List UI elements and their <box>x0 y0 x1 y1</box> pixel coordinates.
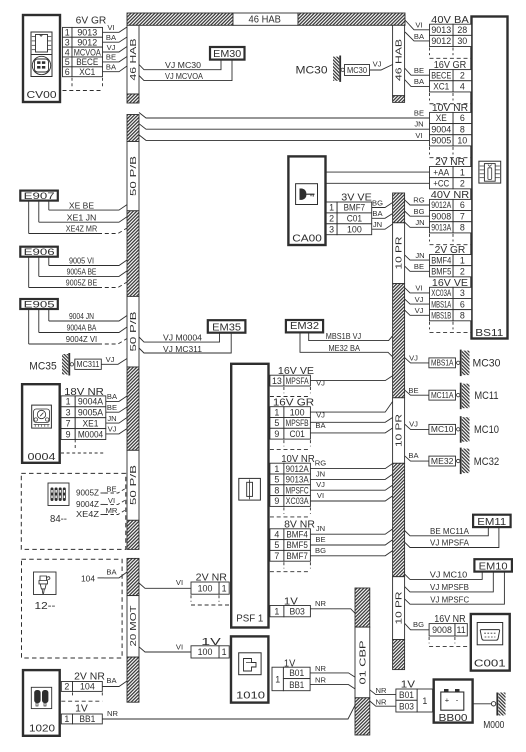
svg-text:EM30: EM30 <box>213 49 241 60</box>
svg-text:10 PR: 10 PR <box>394 591 404 624</box>
svg-text:11: 11 <box>456 625 465 635</box>
svg-text:MC10: MC10 <box>474 424 499 436</box>
svg-text:NR: NR <box>107 709 118 718</box>
svg-text:VI: VI <box>176 643 183 652</box>
svg-text:5: 5 <box>274 418 279 428</box>
svg-text:BMF7: BMF7 <box>286 551 308 561</box>
svg-text:8: 8 <box>460 124 465 134</box>
svg-text:VJ: VJ <box>415 306 424 315</box>
svg-text:84--: 84-- <box>50 514 67 525</box>
svg-text:100: 100 <box>198 647 213 657</box>
svg-text:VJ MC30: VJ MC30 <box>165 60 201 70</box>
svg-text:BECE: BECE <box>76 57 98 67</box>
svg-text:VJ: VJ <box>106 355 115 364</box>
svg-text:EM32: EM32 <box>290 321 319 332</box>
svg-text:BE: BE <box>315 535 325 544</box>
svg-text:9: 9 <box>274 496 279 506</box>
svg-text:MCVOA: MCVOA <box>74 47 101 57</box>
svg-text:40V NR: 40V NR <box>431 190 469 201</box>
svg-text:VJ: VJ <box>316 480 325 489</box>
svg-text:BMF4: BMF4 <box>286 529 308 539</box>
svg-text:BG: BG <box>414 207 425 216</box>
svg-text:VJ: VJ <box>415 295 424 304</box>
svg-text:16V GR: 16V GR <box>434 60 467 71</box>
svg-text:B03: B03 <box>399 702 414 712</box>
svg-text:100: 100 <box>198 583 213 593</box>
svg-text:VI: VI <box>415 21 422 30</box>
svg-text:7: 7 <box>460 211 465 221</box>
svg-text:ME32: ME32 <box>431 457 454 466</box>
svg-text:6: 6 <box>65 67 70 77</box>
svg-text:VI: VI <box>415 284 422 293</box>
svg-text:C001: C001 <box>474 658 506 670</box>
svg-text:RG: RG <box>315 459 326 468</box>
svg-text:BA: BA <box>106 676 117 685</box>
svg-text:2: 2 <box>64 682 69 692</box>
svg-text:XE4Z: XE4Z <box>76 509 99 519</box>
svg-text:VI: VI <box>107 23 114 32</box>
svg-text:BA: BA <box>315 421 326 430</box>
svg-text:9005 VI: 9005 VI <box>69 256 94 266</box>
svg-text:VJ: VJ <box>316 410 325 419</box>
svg-text:9005A: 9005A <box>78 407 103 417</box>
svg-text:JN: JN <box>316 469 325 478</box>
svg-text:EM11: EM11 <box>477 517 506 528</box>
svg-text:9012: 9012 <box>77 37 97 47</box>
svg-text:104: 104 <box>81 573 95 583</box>
svg-text:M000: M000 <box>483 720 505 731</box>
svg-text:MC11A: MC11A <box>431 391 454 400</box>
svg-text:BA: BA <box>414 77 425 86</box>
svg-text:VI: VI <box>415 131 422 140</box>
svg-text:BMF5: BMF5 <box>431 266 451 276</box>
svg-text:9004 JN: 9004 JN <box>69 311 94 321</box>
svg-text:8V NR: 8V NR <box>284 520 315 531</box>
svg-text:+CC: +CC <box>433 178 450 188</box>
svg-text:VJ MPSFC: VJ MPSFC <box>430 594 469 604</box>
svg-text:6V GR: 6V GR <box>76 15 107 26</box>
svg-text:VI: VI <box>317 491 324 500</box>
svg-text:BMF4: BMF4 <box>431 255 451 265</box>
svg-text:MC32: MC32 <box>474 456 500 468</box>
svg-text:BMF5: BMF5 <box>286 540 308 550</box>
svg-text:9005Z: 9005Z <box>76 487 99 497</box>
svg-text:0004: 0004 <box>28 451 56 463</box>
svg-text:BMF7: BMF7 <box>344 203 366 213</box>
svg-text:E907: E907 <box>24 191 55 202</box>
svg-text:2: 2 <box>460 70 465 80</box>
svg-text:XC1: XC1 <box>79 67 95 77</box>
svg-text:16V NR: 16V NR <box>434 614 465 625</box>
svg-text:100: 100 <box>290 407 305 417</box>
svg-text:10V NR: 10V NR <box>281 454 315 465</box>
svg-text:VJ M0004: VJ M0004 <box>163 333 202 343</box>
svg-text:BA: BA <box>372 209 383 218</box>
svg-text:EM10: EM10 <box>479 561 508 572</box>
svg-text:XE BE: XE BE <box>69 200 95 210</box>
svg-text:2V NR: 2V NR <box>435 157 465 168</box>
svg-text:16V VE: 16V VE <box>278 366 314 377</box>
svg-text:100: 100 <box>347 224 362 234</box>
svg-text:VI: VI <box>176 578 183 587</box>
svg-text:40V BA: 40V BA <box>431 15 469 26</box>
svg-text:BE: BE <box>408 386 418 395</box>
svg-text:C01: C01 <box>347 214 362 224</box>
svg-text:VJ: VJ <box>316 379 325 388</box>
svg-text:VJ MPSFA: VJ MPSFA <box>430 538 469 548</box>
svg-text:BB00: BB00 <box>439 712 468 724</box>
svg-text:BA: BA <box>106 33 117 42</box>
svg-text:ME32 BA: ME32 BA <box>328 343 360 353</box>
svg-text:10: 10 <box>457 136 467 146</box>
svg-text:BB1: BB1 <box>289 680 304 690</box>
svg-text:NR: NR <box>315 664 326 673</box>
svg-text:CA00: CA00 <box>292 233 322 245</box>
svg-text:BB1: BB1 <box>79 714 95 724</box>
svg-text:104: 104 <box>80 682 95 692</box>
svg-text:BE: BE <box>107 403 117 412</box>
svg-text:MPSFC: MPSFC <box>286 485 309 495</box>
svg-text:8: 8 <box>460 310 465 320</box>
svg-text:2V GR: 2V GR <box>435 245 466 256</box>
svg-text:BA: BA <box>408 451 419 460</box>
svg-text:1: 1 <box>66 397 71 407</box>
svg-text:E906: E906 <box>24 247 55 258</box>
svg-text:XE4Z MR: XE4Z MR <box>66 224 97 234</box>
svg-text:9013: 9013 <box>431 25 451 35</box>
svg-text:NR: NR <box>315 675 326 684</box>
svg-text:2V NR: 2V NR <box>196 573 227 584</box>
svg-text:01 CBP: 01 CBP <box>357 640 367 685</box>
svg-text:5: 5 <box>65 57 70 67</box>
svg-text:MBS1B: MBS1B <box>431 310 451 320</box>
svg-text:9012: 9012 <box>431 36 451 46</box>
svg-text:2: 2 <box>329 214 334 224</box>
svg-text:5: 5 <box>274 540 279 550</box>
svg-text:46 HAB: 46 HAB <box>249 15 282 26</box>
svg-text:BA: BA <box>106 63 117 72</box>
svg-text:3: 3 <box>66 407 71 417</box>
svg-text:XC03A: XC03A <box>286 496 309 506</box>
svg-text:BG: BG <box>372 198 383 207</box>
svg-text:20 MOT: 20 MOT <box>128 606 138 647</box>
svg-text:9005Z BE: 9005Z BE <box>66 278 98 288</box>
svg-text:VJ MPSFB: VJ MPSFB <box>430 582 469 592</box>
svg-text:+AA: +AA <box>433 167 449 177</box>
svg-text:9013A: 9013A <box>431 223 451 233</box>
svg-text:+: + <box>445 695 450 704</box>
svg-text:4: 4 <box>460 82 465 92</box>
svg-text:1010: 1010 <box>236 690 265 702</box>
svg-text:VJ MCVOA: VJ MCVOA <box>165 71 203 81</box>
svg-text:50 P/B: 50 P/B <box>128 464 138 505</box>
svg-text:8: 8 <box>460 223 465 233</box>
svg-text:1: 1 <box>274 606 279 616</box>
svg-text:7: 7 <box>274 551 279 561</box>
svg-text:9008: 9008 <box>431 211 451 221</box>
svg-text:1: 1 <box>64 714 69 724</box>
svg-text:MC311: MC311 <box>77 360 100 369</box>
svg-text:1: 1 <box>65 28 70 38</box>
svg-text:1V: 1V <box>284 596 298 607</box>
svg-text:B01: B01 <box>289 668 304 678</box>
svg-text:MC35: MC35 <box>29 360 56 372</box>
svg-text:MC30: MC30 <box>473 358 501 370</box>
svg-text:VJ: VJ <box>373 60 382 69</box>
svg-text:7: 7 <box>66 418 71 428</box>
svg-text:1V: 1V <box>401 680 416 691</box>
svg-text:JN: JN <box>373 220 382 229</box>
svg-text:C01: C01 <box>289 429 304 439</box>
svg-text:1: 1 <box>460 167 465 177</box>
svg-text:46 HAB: 46 HAB <box>394 38 404 81</box>
svg-text:JN: JN <box>316 524 325 533</box>
svg-text:1: 1 <box>329 203 334 213</box>
svg-text:10 PR: 10 PR <box>394 236 404 269</box>
svg-text:16V VE: 16V VE <box>432 278 468 289</box>
svg-text:NR: NR <box>315 599 326 608</box>
svg-text:6: 6 <box>460 299 465 309</box>
svg-text:3V VE: 3V VE <box>341 193 372 204</box>
svg-text:BE: BE <box>414 262 424 271</box>
svg-text:VJ: VJ <box>409 353 418 362</box>
svg-text:MC10: MC10 <box>431 425 454 434</box>
svg-text:16V GR: 16V GR <box>273 397 314 408</box>
svg-text:9004A BA: 9004A BA <box>67 323 97 333</box>
svg-text:VJ: VJ <box>409 419 418 428</box>
svg-text:3: 3 <box>65 37 70 47</box>
svg-text:CV00: CV00 <box>27 89 57 101</box>
svg-text:BE: BE <box>414 109 424 118</box>
svg-text:VJ: VJ <box>107 43 116 52</box>
svg-text:E905: E905 <box>24 299 55 310</box>
svg-text:1: 1 <box>422 696 427 706</box>
svg-text:50 P/B: 50 P/B <box>128 311 138 352</box>
svg-text:1: 1 <box>274 464 279 474</box>
svg-text:6: 6 <box>460 113 465 123</box>
svg-text:9004A: 9004A <box>78 397 103 407</box>
svg-text:1: 1 <box>460 255 465 265</box>
svg-text:BA: BA <box>106 568 117 577</box>
svg-text:9012A: 9012A <box>286 464 309 474</box>
svg-text:BE: BE <box>414 66 424 75</box>
svg-text:4: 4 <box>65 47 70 57</box>
svg-text:XE1: XE1 <box>83 418 99 428</box>
svg-text:9: 9 <box>274 429 279 439</box>
svg-text:B03: B03 <box>289 606 304 616</box>
svg-text:JN: JN <box>415 218 424 227</box>
svg-text:EM35: EM35 <box>212 322 241 333</box>
svg-text:JN: JN <box>414 120 423 129</box>
svg-text:1: 1 <box>222 647 227 657</box>
svg-text:9013: 9013 <box>77 28 97 38</box>
svg-text:28: 28 <box>457 25 467 35</box>
svg-text:1: 1 <box>274 407 279 417</box>
svg-text:50 P/B: 50 P/B <box>128 155 138 196</box>
svg-text:9008: 9008 <box>432 625 452 635</box>
svg-text:12--: 12-- <box>35 601 56 612</box>
svg-text:BA: BA <box>414 32 425 41</box>
svg-text:BECE: BECE <box>431 70 451 80</box>
svg-text:1V: 1V <box>201 637 221 648</box>
svg-text:MBS1A: MBS1A <box>431 359 454 368</box>
svg-text:VJ: VJ <box>108 425 117 434</box>
svg-text:MPSFB: MPSFB <box>286 418 309 428</box>
svg-text:JN: JN <box>415 251 424 260</box>
svg-text:10V NR: 10V NR <box>432 103 468 114</box>
svg-text:MC30: MC30 <box>296 65 328 77</box>
svg-text:2: 2 <box>460 178 465 188</box>
svg-text:MR: MR <box>106 506 118 515</box>
svg-text:1: 1 <box>275 674 280 684</box>
svg-text:B01: B01 <box>399 690 414 700</box>
svg-text:5: 5 <box>274 475 279 485</box>
svg-text:MC30: MC30 <box>347 66 368 75</box>
svg-text:XC1: XC1 <box>433 82 449 92</box>
svg-text:3: 3 <box>460 288 465 298</box>
svg-text:PSF 1: PSF 1 <box>236 612 263 624</box>
svg-text:1020: 1020 <box>29 723 55 735</box>
svg-text:BG: BG <box>413 620 424 629</box>
svg-text:9004: 9004 <box>431 124 451 134</box>
svg-text:BE: BE <box>106 485 116 494</box>
svg-text:9005: 9005 <box>431 136 451 146</box>
svg-text:BG: BG <box>315 546 326 555</box>
svg-text:RG: RG <box>413 196 424 205</box>
svg-text:BS11: BS11 <box>475 327 503 339</box>
svg-text:9004Z VI: 9004Z VI <box>66 334 97 344</box>
svg-text:JN: JN <box>107 414 116 423</box>
svg-text:9013A: 9013A <box>286 475 309 485</box>
svg-text:MBS1B VJ: MBS1B VJ <box>326 331 361 341</box>
svg-text:30: 30 <box>457 36 467 46</box>
svg-text:46 HAB: 46 HAB <box>128 38 138 81</box>
svg-text:MC11: MC11 <box>474 390 498 402</box>
svg-text:VJ MC311: VJ MC311 <box>163 344 202 354</box>
svg-text:4: 4 <box>274 529 279 539</box>
svg-text:10 PR: 10 PR <box>394 414 404 447</box>
svg-text:9005A BE: 9005A BE <box>67 267 97 277</box>
svg-text:NR: NR <box>376 686 387 695</box>
svg-text:18V NR: 18V NR <box>64 387 104 398</box>
svg-text:9: 9 <box>66 429 71 439</box>
svg-text:BA: BA <box>107 392 118 401</box>
svg-text:MPSFA: MPSFA <box>286 376 309 386</box>
svg-text:BE MC11A: BE MC11A <box>430 526 469 536</box>
svg-text:2V NR: 2V NR <box>74 671 105 682</box>
svg-text:8: 8 <box>274 485 279 495</box>
svg-text:XE: XE <box>436 113 447 123</box>
svg-text:NR: NR <box>376 697 387 706</box>
svg-text:VJ MC10: VJ MC10 <box>430 570 468 580</box>
svg-text:M0004: M0004 <box>78 429 103 439</box>
svg-text:2: 2 <box>460 266 465 276</box>
svg-text:1V: 1V <box>75 703 88 714</box>
svg-text:9012A: 9012A <box>431 200 451 210</box>
svg-text:VI: VI <box>108 496 115 505</box>
svg-text:1V: 1V <box>284 659 296 670</box>
svg-text:BE: BE <box>106 53 116 62</box>
svg-text:9004Z: 9004Z <box>76 499 99 509</box>
svg-text:3: 3 <box>329 224 334 234</box>
svg-text:XE1 JN: XE1 JN <box>67 212 97 222</box>
svg-text:13: 13 <box>272 376 282 386</box>
svg-text:6: 6 <box>460 200 465 210</box>
svg-text:MBS1A: MBS1A <box>431 299 451 309</box>
svg-text:XC03A: XC03A <box>431 288 451 298</box>
svg-text:1: 1 <box>222 583 227 593</box>
